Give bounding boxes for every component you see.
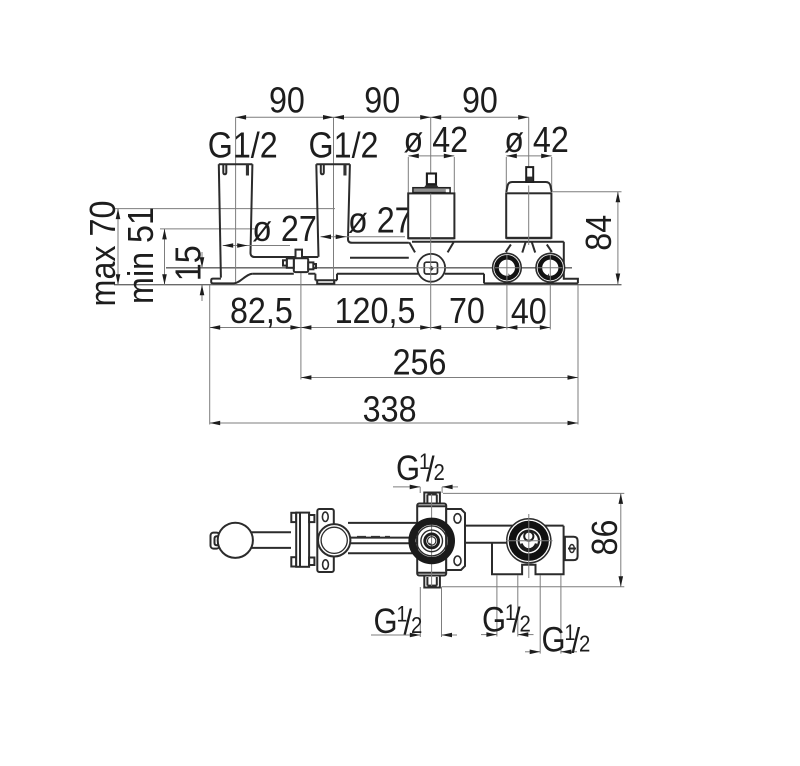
DIMENSION G1/2 bottom3: [525, 650, 577, 655]
centerline tube1: [235, 117, 237, 284]
text 338: [363, 390, 417, 430]
chamfer left of mixer outlet: [409, 242, 415, 252]
text o42 b: [504, 120, 569, 160]
svg-text:82,5: 82,5: [230, 291, 293, 331]
DIMENSION o42 mixer: [408, 154, 454, 159]
flange tabs right: [309, 515, 314, 565]
text 40: [511, 292, 547, 332]
svg-text:90: 90: [364, 81, 400, 121]
port circle 1: [493, 253, 522, 282]
svg-text:ø 27: ø 27: [252, 209, 317, 249]
svg-text:max 70: max 70: [83, 201, 123, 307]
svg-text:2: 2: [434, 459, 445, 485]
DIMENSION 86: [442, 493, 625, 586]
svg-text:G: G: [396, 449, 420, 488]
diverter horizontal centerline: [506, 540, 553, 542]
fixing bracket: [283, 250, 316, 272]
mixer block top tab: [424, 493, 440, 504]
ext line o42 diverter left: [505, 157, 507, 192]
right end profile: [564, 242, 578, 284]
DIMENSION 90x3: [236, 115, 529, 120]
mixer block rear: [417, 504, 446, 576]
text 90 c: [462, 81, 498, 121]
rear bracket plate: [446, 509, 465, 570]
mixer cartridge shoulder: [424, 184, 439, 188]
funnel under diverter: [522, 242, 535, 253]
svg-text:2: 2: [520, 610, 531, 636]
port circle 2: [536, 253, 565, 282]
svg-text:G1/2: G1/2: [208, 126, 278, 166]
ext line right edge: [577, 285, 579, 425]
svg-text:90: 90: [269, 81, 305, 121]
text G1/2 bottom1: [374, 602, 423, 642]
text o27 a: [252, 209, 317, 249]
centerline mixer lower: [430, 193, 432, 329]
ext line o42 mixer right: [453, 157, 455, 193]
text o42 a: [403, 120, 468, 160]
text o27 b: [348, 201, 413, 241]
foot under tube2: [317, 280, 334, 284]
svg-text:70: 70: [449, 291, 485, 331]
ext lines port1 rear: [497, 575, 518, 637]
svg-text:2: 2: [579, 630, 590, 656]
ext line base: [114, 284, 622, 286]
text 15: [169, 245, 209, 281]
ext line left edge: [209, 285, 211, 425]
deck line between tubes: [302, 256, 318, 258]
svg-text:G: G: [374, 602, 398, 641]
diverter cartridge body: [506, 193, 551, 238]
stub left of port1: [506, 245, 511, 252]
svg-text:90: 90: [462, 81, 498, 121]
stub right of port2: [547, 245, 552, 252]
svg-text:84: 84: [579, 215, 619, 251]
DIMENSION G1/2 top: [393, 485, 458, 493]
DIMENSION o27 tube2: [321, 235, 406, 240]
svg-text:G: G: [482, 601, 506, 640]
flange tabs left: [291, 513, 296, 567]
text max 70: [83, 201, 123, 307]
text 256: [393, 343, 447, 383]
text min 51: [121, 207, 161, 304]
ext lines port2 rear: [540, 575, 561, 654]
text 84: [579, 215, 619, 251]
plate edge right of mixer outlet: [445, 274, 484, 284]
text 90 b: [364, 81, 400, 121]
text 86: [585, 520, 625, 556]
DIMENSION min 51: [162, 229, 167, 285]
centerline diverter lower: [528, 186, 530, 246]
svg-text:min 51: min 51: [121, 207, 161, 304]
diverter axis centerline: [528, 514, 530, 578]
DIMENSION G1/2 bottom1: [371, 633, 457, 638]
mixer block bottom tab: [424, 576, 440, 588]
mixer cartridge cap ring: [413, 188, 450, 193]
centerline diverter: [528, 117, 530, 167]
mixer outlet circle: [417, 253, 447, 283]
DIMENSION 338: [210, 421, 578, 426]
text 90 a: [269, 81, 305, 121]
text G1/2 a: [208, 126, 278, 166]
rod: [252, 532, 292, 548]
DIMENSION G1/2 bottom2: [481, 632, 534, 637]
ext line min51 top: [160, 228, 255, 230]
right wall tab: [565, 537, 578, 560]
plate ledge under tube2: [315, 279, 337, 281]
diverter rear circles: [507, 519, 551, 563]
diverter rear body: [492, 526, 564, 574]
ext line o42 mixer left: [407, 157, 409, 193]
plate bottom right section: [484, 282, 578, 284]
DIMENSION max 70: [116, 209, 121, 285]
diverter stem: [526, 167, 533, 182]
svg-text:15: 15: [169, 245, 209, 281]
mixer cartridge body: [408, 193, 454, 238]
ext line o42 diverter right: [551, 157, 553, 192]
plate top edge mid: [253, 274, 418, 281]
svg-text:256: 256: [393, 343, 447, 383]
ext line bracket axis: [300, 272, 302, 379]
svg-text:G1/2: G1/2: [308, 126, 378, 166]
ext line port1 axis: [506, 251, 508, 330]
DIMENSION 84: [616, 192, 621, 284]
text 82,5: [230, 291, 293, 331]
ext line 84 top: [553, 191, 622, 193]
retaining clip: [211, 533, 220, 549]
text G1/2 top: [396, 449, 445, 489]
wall plate with screw ears: [317, 509, 334, 572]
svg-text:2: 2: [411, 612, 422, 638]
svg-text:ø 27: ø 27: [348, 201, 413, 241]
tube 2: [316, 164, 352, 257]
text 70: [449, 291, 485, 331]
svg-text:40: 40: [511, 292, 547, 332]
ext line port2 axis: [549, 251, 551, 330]
text 120,5: [335, 291, 416, 331]
block centerline: [431, 494, 433, 586]
connecting bar: [348, 523, 417, 553]
text G1/2 bottom3: [542, 621, 591, 661]
DIMENSION row 82.5/120.5/70/40: [210, 325, 551, 330]
DIMENSION 15: [200, 252, 205, 301]
cartridge O-ring: [412, 521, 451, 560]
centerline tube2: [333, 117, 335, 284]
svg-text:ø 42: ø 42: [403, 120, 468, 160]
tube 1: [219, 164, 296, 277]
ext line max70 top: [114, 208, 335, 210]
svg-text:86: 86: [585, 520, 625, 556]
svg-text:338: 338: [363, 390, 417, 430]
text G1/2 bottom2: [482, 601, 531, 641]
mounting plate left foot: [211, 274, 253, 284]
ext line ports centerline: [166, 267, 572, 269]
centerline mixer: [430, 117, 432, 173]
side port circle: [318, 524, 350, 556]
svg-text:120,5: 120,5: [335, 291, 416, 331]
flange plate: [296, 513, 309, 567]
svg-text:ø 42: ø 42: [504, 120, 569, 160]
chamfer right of mixer outlet: [448, 242, 454, 252]
deck line right section: [412, 241, 564, 243]
ext lines mixer bottom port: [420, 587, 441, 637]
DIMENSION o27 tube1: [223, 243, 290, 248]
upper bar right of tube2: [350, 243, 409, 258]
diverter dome: [506, 182, 551, 192]
ball handle: [218, 523, 253, 558]
diverter bar: [464, 526, 564, 543]
svg-text:G: G: [542, 621, 566, 660]
DIMENSION 256: [301, 375, 578, 380]
mixer cartridge stem: [427, 174, 436, 185]
text G1/2 b: [308, 126, 378, 166]
DIMENSION o42 diverter: [506, 154, 551, 159]
